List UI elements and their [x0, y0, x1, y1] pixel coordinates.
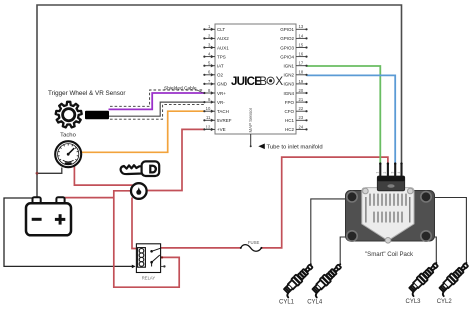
svg-text:12: 12	[206, 124, 211, 129]
svg-text:22: 22	[299, 106, 304, 111]
pin 24 HC2 stub	[285, 124, 308, 132]
trigger wheel (gear)	[56, 102, 82, 128]
svg-text:TACH: TACH	[217, 109, 229, 114]
svg-text:24: 24	[299, 124, 304, 129]
svg-text:IGN3: IGN3	[283, 82, 294, 87]
spark plug CYL1	[281, 263, 316, 298]
svg-text:IGN1: IGN1	[283, 64, 294, 69]
svg-text:X: X	[275, 75, 283, 88]
wire: tacho gauge ground branch to ground bus	[37, 168, 62, 174]
svg-text:17: 17	[299, 61, 304, 66]
svg-text:GND: GND	[217, 82, 228, 87]
pin 7 GND stub	[203, 79, 227, 87]
svg-text:10: 10	[206, 106, 211, 111]
JuiceBox logo	[231, 75, 283, 88]
pin 2 AUX2 stub	[203, 33, 229, 41]
svg-text:GPIO3: GPIO3	[280, 45, 294, 50]
svg-text:+VE: +VE	[217, 127, 226, 132]
pin 13 GPIO1 stub	[280, 24, 307, 32]
wire: battery positive to +12V junction (red)	[65, 197, 114, 199]
label: Tube to inlet manifold	[258, 144, 265, 150]
svg-text:4: 4	[397, 172, 401, 174]
MAP sensor tube stub	[250, 134, 252, 146]
svg-text:AUX1: AUX1	[217, 45, 229, 50]
svg-text:15: 15	[299, 42, 304, 47]
shielded cable outline (dashed)	[110, 90, 205, 119]
coil connector pin labels 1-4	[376, 172, 401, 174]
coil connector wire tips (crimps)	[380, 164, 401, 177]
svg-text:14: 14	[299, 33, 304, 38]
svg-text:VR+: VR+	[217, 91, 226, 96]
svg-text:RELAY: RELAY	[142, 275, 156, 280]
pin 11 5VREF stub	[203, 115, 231, 123]
pin 14 GPIO2 stub	[280, 33, 307, 41]
svg-text:TPS: TPS	[217, 54, 226, 59]
pin 10 TACH stub	[203, 106, 229, 114]
wire: VR sensor - to VR- pin 9 (gray)	[109, 102, 205, 116]
fuse F1	[241, 245, 262, 252]
svg-text:CYL1: CYL1	[279, 299, 295, 305]
svg-text:CYL4: CYL4	[307, 299, 323, 305]
svg-text:VR-: VR-	[217, 100, 225, 105]
svg-text:B: B	[259, 75, 267, 88]
spark plug CYL4	[309, 263, 344, 298]
pin 17 IGN1 stub	[283, 61, 307, 69]
pin 15 GPIO3 stub	[280, 42, 307, 50]
svg-text:GPIO1: GPIO1	[280, 27, 294, 32]
svg-text:IGN2: IGN2	[283, 73, 294, 78]
pin 18 IGN2 stub	[283, 70, 307, 78]
pin 9 VR- stub	[203, 97, 225, 105]
pin 21 FPO stub	[285, 97, 308, 105]
svg-text:IGN4: IGN4	[283, 91, 294, 96]
wire: IGN1 pin 17 to coil connector pin 1 (green)	[307, 66, 381, 164]
coil pack wire: bottom-right bolt to CYL3 plug	[431, 237, 436, 263]
coil pack wire: bottom-left bolt to CYL4 plug	[340, 237, 347, 264]
relay K1	[136, 244, 165, 273]
pin 8 VR+ stub	[203, 88, 226, 96]
wire: ignition switch to relay coil pin 86 (red)	[132, 198, 136, 249]
pin 4 TPS stub	[203, 52, 225, 60]
svg-text:GPIO2: GPIO2	[280, 36, 294, 41]
wire: tacho gauge power feed (red)	[74, 167, 132, 186]
wire: VR sensor + to VR+ pin 8 (purple)	[109, 93, 205, 109]
wire: +12V riser to ignition switch and down to relay loop (red)	[114, 191, 179, 287]
ignition key icon	[121, 161, 160, 176]
smart coil pack body	[346, 188, 435, 244]
svg-text:Tacho: Tacho	[60, 132, 76, 138]
pin 6 O2 stub	[203, 70, 223, 78]
svg-text:3: 3	[391, 172, 395, 174]
ground bus wire: battery negative up, across top, down to coil connector pin 4	[37, 5, 402, 198]
svg-text:13: 13	[299, 24, 304, 29]
wire: fuse to coil connector pin 2 +12V (red)	[261, 157, 388, 248]
svg-text:HC2: HC2	[285, 127, 294, 132]
pin 5 IAT stub	[203, 61, 224, 69]
svg-text:11: 11	[206, 115, 211, 120]
tacho gauge	[55, 141, 81, 167]
svg-text:IAT: IAT	[217, 64, 224, 69]
svg-text:19: 19	[299, 79, 304, 84]
svg-text:HC1: HC1	[285, 118, 294, 123]
svg-text:FPO: FPO	[285, 100, 295, 105]
spark plug CYL2	[436, 261, 471, 296]
VR sensor body	[85, 111, 109, 120]
svg-text:O2: O2	[217, 73, 224, 78]
svg-text:CFO: CFO	[285, 109, 295, 114]
coil pack mounting wire: top-left bolt to CYL1 plug	[311, 199, 347, 264]
svg-text:21: 21	[299, 97, 304, 102]
wire: IGN2 pin 18 to coil connector pin 3 (blue)	[307, 75, 396, 164]
svg-text:23: 23	[299, 115, 304, 120]
svg-text:GPIO4: GPIO4	[280, 54, 294, 59]
pin 19 IGN3 stub	[283, 79, 307, 87]
JuiceBox ECU U1	[215, 24, 296, 134]
pin 1 CLT stub	[203, 24, 225, 32]
wire: TACH pin 10 to tacho gauge (orange)	[82, 111, 204, 152]
pin 12 +VE stub	[203, 124, 225, 132]
svg-text:1: 1	[376, 172, 380, 174]
svg-text:CYL3: CYL3	[405, 299, 421, 305]
wire: relay pin 87 to fuse (red)	[161, 247, 241, 249]
svg-text:Tube to inlet manifold: Tube to inlet manifold	[267, 144, 323, 150]
ignition switch	[131, 183, 147, 199]
svg-text:FUSE: FUSE	[248, 240, 260, 245]
svg-text:2: 2	[383, 172, 387, 174]
wire: ignition switch output to +VE pin 12 (red)	[147, 129, 204, 190]
svg-text:20: 20	[299, 88, 304, 93]
spark plug CYL3	[406, 261, 441, 296]
svg-text:18: 18	[299, 70, 304, 75]
svg-text:Shielded Cable: Shielded Cable	[164, 85, 197, 91]
battery B1	[26, 197, 71, 235]
pin 23 HC1 stub	[285, 115, 308, 123]
svg-text:MAP Sensor: MAP Sensor	[248, 107, 253, 132]
pin 20 IGN4 stub	[283, 88, 307, 96]
svg-text:5VREF: 5VREF	[217, 118, 232, 123]
pin 3 AUX1 stub	[203, 42, 229, 50]
svg-text:AUX2: AUX2	[217, 36, 229, 41]
junction: ground bus / gauge ground node	[36, 172, 39, 175]
svg-text:CLT: CLT	[217, 27, 225, 32]
svg-text:"Smart" Coil Pack: "Smart" Coil Pack	[365, 251, 414, 258]
svg-text:Trigger Wheel & VR Sensor: Trigger Wheel & VR Sensor	[48, 90, 125, 97]
coil pack wire: top-right bolt to CYL2 plug	[431, 198, 466, 264]
svg-text:16: 16	[299, 52, 304, 57]
svg-text:JUICE: JUICE	[231, 75, 262, 88]
wire: battery negative to relay pin 85 (black)	[4, 198, 134, 266]
coil connector	[377, 176, 404, 191]
svg-text:CYL2: CYL2	[437, 299, 453, 305]
pin 16 GPIO4 stub	[280, 52, 307, 60]
pin 22 CFO stub	[285, 106, 308, 114]
